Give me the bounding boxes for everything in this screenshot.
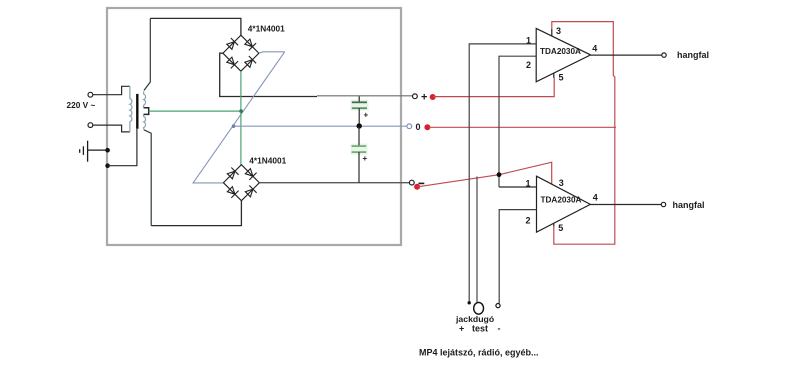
svg-text:5: 5 (558, 223, 563, 233)
wire U2 pin2 to jack minus (499, 210, 536, 304)
terminal 220V line A (88, 92, 93, 97)
wire red minus diagonal to U2 pin3 (418, 162, 552, 187)
svg-text:3: 3 (559, 178, 564, 188)
wire secondary top to bridge B1 top (black) (150, 18, 241, 35)
svg-text:2: 2 (526, 60, 531, 70)
svg-text:jackdugó: jackdugó (455, 314, 494, 324)
bridge rectifier B1 (223, 35, 259, 71)
wire secondary top lead (144, 18, 150, 90)
transformer T1 (130, 18, 151, 225)
capacitor C1 (351, 96, 369, 126)
wire + rail right segment to + terminal (317, 95, 413, 97)
node red dot 0 (424, 124, 430, 130)
secondary winding upper (144, 92, 146, 108)
svg-text:TDA2030A: TDA2030A (540, 47, 581, 56)
node shared junction on red diagonal (497, 172, 502, 177)
svg-text:+: + (364, 111, 369, 120)
svg-text:4*1N4001: 4*1N4001 (249, 156, 286, 166)
node blue 0-rail junction (232, 124, 236, 128)
svg-text:+: + (421, 92, 427, 104)
wire blue diagonal (193, 52, 285, 183)
node box-core junction (105, 163, 110, 168)
secondary winding lower (144, 115, 146, 130)
wire 220V line A to primary top (93, 86, 130, 94)
op-amp U2 (537, 176, 591, 232)
label minus (419, 182, 425, 184)
svg-text:-: - (498, 324, 501, 334)
wire B1 left vertex down to + rail (220, 53, 317, 96)
primary winding (130, 86, 132, 132)
node ground-box junction (105, 148, 110, 153)
svg-text:3: 3 (556, 26, 561, 36)
wire U2 pin1 (499, 186, 537, 188)
node red dot + (430, 94, 436, 100)
terminal hangfal lower (661, 202, 665, 206)
op-amp U1 (536, 28, 590, 81)
wire B1 right vertex blue stub (259, 52, 285, 53)
node green tap junction (239, 109, 243, 113)
svg-text:+: + (459, 324, 464, 334)
svg-text:0: 0 (416, 122, 421, 132)
svg-text:220 V ~: 220 V ~ (67, 100, 96, 110)
terminal 0 (407, 124, 412, 129)
enclosure box (107, 8, 401, 245)
svg-text:1: 1 (526, 36, 531, 46)
svg-text:hangfal: hangfal (673, 200, 705, 210)
svg-text:test: test (472, 324, 488, 334)
jack plug ring contact (496, 304, 500, 308)
wire secondary bottom lead (144, 130, 151, 226)
terminal + (413, 94, 418, 99)
core (136, 94, 138, 129)
wire B2 right vertex minus rail (259, 182, 409, 184)
capacitor C2 (351, 126, 368, 183)
wire U1 pin1 to jack tip (469, 44, 536, 302)
terminal 220V line B (88, 123, 93, 128)
wire red plus supply to U1 pin5 (433, 78, 554, 97)
svg-text:4*1N4001: 4*1N4001 (248, 24, 285, 34)
jack plug tip contact (468, 301, 471, 304)
wire 220V line B to primary bottom (93, 125, 130, 132)
wire green vertical between bridges (240, 71, 242, 165)
svg-text:+: + (363, 154, 368, 163)
svg-text:4: 4 (592, 43, 597, 53)
wire 0 rail blue (234, 125, 407, 127)
svg-text:hangfal: hangfal (677, 50, 709, 60)
node C1-C2 junction on 0 rail (357, 123, 362, 128)
wire jack sleeve vertical (476, 177, 478, 303)
svg-text:2: 2 (526, 216, 531, 226)
wire U2 output to speaker (590, 204, 661, 206)
secondary center tap (144, 108, 149, 115)
jack plug sleeve contact (474, 302, 484, 314)
wire red 0 line (429, 126, 616, 128)
wire U1 output to speaker (591, 54, 662, 56)
bridge rectifier B2 (223, 165, 259, 201)
terminal minus (409, 180, 414, 185)
terminal hangfal upper (662, 53, 666, 57)
wire center tap green horizontal (149, 110, 241, 112)
wire red feedback U1 pin3 to U2 pin5 (552, 22, 615, 245)
node red dot minus (414, 184, 420, 190)
svg-text:MP4 lejátszó, rádió, egyéb...: MP4 lejátszó, rádió, egyéb... (419, 348, 539, 358)
svg-text:5: 5 (559, 73, 564, 83)
ground (80, 141, 108, 162)
wire secondary bottom to bridge B2 bottom (black) (151, 201, 241, 226)
wire U1 pin2 down to shared node (499, 56, 536, 187)
svg-text:TDA2030A: TDA2030A (541, 196, 582, 205)
wire ground junction to transformer core (108, 129, 137, 166)
svg-text:4: 4 (593, 193, 598, 203)
